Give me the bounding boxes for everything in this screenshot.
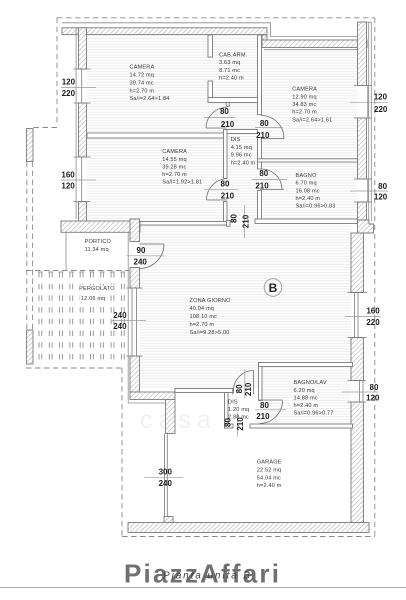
svg-text:h=2.70 m: h=2.70 m xyxy=(162,172,187,178)
roof overhang line right b xyxy=(370,22,372,221)
svg-text:B: B xyxy=(269,281,278,295)
svg-text:90: 90 xyxy=(137,246,146,255)
outer wall top band A xyxy=(62,28,267,35)
hallway left wall lower xyxy=(224,202,228,226)
svg-text:14.88 mc: 14.88 mc xyxy=(294,396,318,402)
west wall upper piece xyxy=(79,28,87,69)
svg-text:BAGNO: BAGNO xyxy=(296,173,317,179)
window 80/120 right bagno/lav xyxy=(348,380,367,382)
svg-text:11.34 mq: 11.34 mq xyxy=(85,247,109,253)
svg-text:80: 80 xyxy=(221,180,230,189)
svg-text:220: 220 xyxy=(366,318,380,327)
svg-text:16.08 mc: 16.08 mc xyxy=(296,188,320,194)
dim window right 120/220 xyxy=(350,93,388,114)
svg-text:CAMERA: CAMERA xyxy=(292,86,317,92)
svg-text:34.83 mc: 34.83 mc xyxy=(292,102,316,108)
pergolato roof pattern xyxy=(38,272,125,359)
outer wall top band B xyxy=(262,40,367,48)
portico west edge xyxy=(65,232,67,271)
svg-text:80: 80 xyxy=(229,214,238,223)
dim door DIS-bagno/lav 80/210 xyxy=(255,401,286,421)
svg-text:80: 80 xyxy=(370,383,379,392)
svg-text:14.72 mq: 14.72 mq xyxy=(130,73,155,79)
svg-text:160: 160 xyxy=(61,171,75,180)
door D4 arc xyxy=(262,169,283,190)
svg-text:80: 80 xyxy=(260,401,269,410)
label camera NW xyxy=(130,65,170,103)
svg-text:ZONA GIORNO: ZONA GIORNO xyxy=(190,298,232,304)
svg-text:80: 80 xyxy=(235,384,244,393)
dis2 left wall xyxy=(225,393,229,429)
dim opening hall-zona 80/210 rotated xyxy=(229,205,250,238)
svg-text:39.74 mc: 39.74 mc xyxy=(130,81,154,87)
right wall piece 4 xyxy=(351,233,364,293)
dim door D3 80/210 xyxy=(204,180,238,201)
hallway right wall piece 2 xyxy=(258,137,262,169)
svg-text:h=2.40 m: h=2.40 m xyxy=(294,403,319,409)
label bagno xyxy=(296,173,336,209)
door D2 arc xyxy=(261,116,284,139)
svg-text:DIS: DIS xyxy=(231,137,241,143)
dashed line left of garage xyxy=(121,368,123,537)
svg-text:54.04 mc: 54.04 mc xyxy=(257,475,281,481)
svg-text:80: 80 xyxy=(220,107,229,116)
west wall middle piece xyxy=(79,103,87,157)
svg-text:240: 240 xyxy=(159,479,173,488)
dim door D4 80/210 xyxy=(252,169,287,190)
door D1 arc xyxy=(206,108,227,129)
svg-text:39.28 mc: 39.28 mc xyxy=(162,164,186,170)
floor hatch upper-right rooms (CAMERA, BAGNO) xyxy=(262,50,358,219)
label dis hallway xyxy=(231,137,256,166)
floor hatch ZONA GIORNO lower-left xyxy=(140,363,259,389)
dim door zona-DIS 80/210 rotated xyxy=(235,369,253,399)
label camera NE xyxy=(292,86,332,123)
svg-text:CAMERA: CAMERA xyxy=(162,149,187,155)
svg-text:Sa/i=9.28>5.00: Sa/i=9.28>5.00 xyxy=(190,330,230,336)
window 160/220 right zona xyxy=(348,292,368,294)
svg-text:120: 120 xyxy=(61,182,75,191)
wall camera1/camera2 xyxy=(87,133,227,138)
svg-text:80: 80 xyxy=(259,169,268,178)
door DIS-bagno/lav leaf xyxy=(259,399,283,401)
dim door D1 80/210 xyxy=(204,107,235,129)
svg-text:casa: casa xyxy=(140,406,217,434)
svg-text:Sa/i=2.64>1.84: Sa/i=2.64>1.84 xyxy=(130,96,170,102)
pergola pillar 1 xyxy=(26,129,33,162)
west wall lower piece xyxy=(79,202,87,223)
door 90/240 arc xyxy=(140,244,165,269)
zona west wall piece 3 xyxy=(130,356,140,392)
garage top wall right piece xyxy=(250,424,353,428)
svg-text:Sa/i=0.96>0.83: Sa/i=0.96>0.83 xyxy=(296,204,336,210)
svg-text:h=2.40 m: h=2.40 m xyxy=(219,76,244,82)
hallway right wall piece 1 xyxy=(258,35,262,115)
door zona-DIS arc xyxy=(234,371,254,391)
svg-text:210: 210 xyxy=(244,382,253,396)
cab.arm left wall stub upper xyxy=(208,35,213,57)
svg-text:108.10 mc: 108.10 mc xyxy=(190,314,218,320)
floor hatch upper-left rooms (CAMERA x2, CAB.ARM, DIS) xyxy=(87,36,258,222)
svg-text:9.96 mc: 9.96 mc xyxy=(231,153,252,159)
svg-text:220: 220 xyxy=(62,89,76,98)
svg-text:210: 210 xyxy=(221,120,235,129)
dim door 90/240 portico xyxy=(127,246,165,267)
svg-text:3.63 mq: 3.63 mq xyxy=(219,60,240,66)
dim window right 80/120 xyxy=(350,182,388,202)
svg-text:80: 80 xyxy=(260,119,269,128)
jog wall horizontal xyxy=(130,392,175,400)
svg-text:12.90 mq: 12.90 mq xyxy=(292,94,317,100)
right wall top cap xyxy=(358,21,373,23)
garage top wall left piece xyxy=(225,424,234,428)
dim door D2 80/210 xyxy=(255,119,283,140)
bagno top wall xyxy=(258,159,358,162)
dim garage opening 300/240 xyxy=(144,467,183,488)
svg-text:6.20 mq: 6.20 mq xyxy=(294,388,315,394)
bagno/lav left wall xyxy=(259,363,263,401)
door 90/240 leaf (portico entrance) xyxy=(140,243,165,245)
svg-text:120: 120 xyxy=(374,93,388,102)
zona giorno bottom partition xyxy=(175,389,234,393)
svg-text:14.55 mq: 14.55 mq xyxy=(162,157,187,163)
dashed property line top xyxy=(57,17,375,19)
zona west wall piece 1 xyxy=(130,219,140,242)
hallway top wall xyxy=(226,130,258,134)
svg-text:12.06 mq: 12.06 mq xyxy=(81,296,106,302)
svg-text:PERGOLATO: PERGOLATO xyxy=(79,286,115,292)
garage west bottom step xyxy=(164,517,173,523)
svg-text:160: 160 xyxy=(366,307,380,316)
label zona giorno xyxy=(190,298,232,336)
svg-text:120: 120 xyxy=(366,394,380,403)
floor hatch ZONA GIORNO upper xyxy=(140,225,352,363)
label pergolato xyxy=(79,286,115,302)
svg-text:GARAGE: GARAGE xyxy=(257,460,282,466)
svg-text:210: 210 xyxy=(256,131,270,140)
dim window west 120/220 xyxy=(61,78,96,99)
dim window bagno/lav 80/120 xyxy=(342,383,380,403)
svg-text:Sa/l=1.92>1.81: Sa/l=1.92>1.81 xyxy=(162,180,202,186)
window 120/220 west xyxy=(74,68,91,70)
svg-text:Sa/i=0.96>0.77: Sa/i=0.96>0.77 xyxy=(294,410,334,416)
cab.arm left wall stub lower xyxy=(208,81,213,103)
right wall piece 1 xyxy=(358,22,367,86)
bagno bottom wall xyxy=(255,219,358,224)
label dis2 xyxy=(228,400,249,421)
dashed property line right xyxy=(374,18,376,537)
unit marker B xyxy=(264,279,282,297)
label bagno/lav xyxy=(294,380,334,416)
svg-text:120: 120 xyxy=(62,78,76,87)
dim window west 240/240 xyxy=(112,311,146,331)
jog wall vertical / garage west pier xyxy=(166,400,176,434)
label portico xyxy=(85,239,112,253)
window 240/240 west zona xyxy=(127,287,143,289)
roof overhang line right a xyxy=(368,22,370,221)
svg-text:6.70 mq: 6.70 mq xyxy=(296,181,317,187)
floor hatch BAGNO/LAV xyxy=(262,367,351,425)
svg-text:210: 210 xyxy=(241,214,250,228)
inner face line right section xyxy=(264,49,358,51)
door D1 leaf (hall/cab.arm) xyxy=(206,127,227,129)
dashed property line bottom xyxy=(122,536,375,538)
right wall piece 6 (garage) xyxy=(351,402,364,523)
dim door DIS-garage 80/210 rotated xyxy=(224,413,246,437)
right wall piece 3 xyxy=(358,202,367,224)
door zona-DIS leaf xyxy=(253,371,255,395)
svg-text:h=2.70 m: h=2.70 m xyxy=(130,89,155,95)
door D3 arc xyxy=(206,179,227,201)
svg-text:1.20 mq: 1.20 mq xyxy=(228,407,249,413)
svg-text:240: 240 xyxy=(113,311,127,320)
svg-text:2.88 mc: 2.88 mc xyxy=(228,415,249,421)
door D3 leaf (camera2) xyxy=(207,199,228,201)
svg-text:h=2.40 m: h=2.40 m xyxy=(231,160,256,166)
svg-text:DIS: DIS xyxy=(228,400,238,406)
svg-text:40.04 mq: 40.04 mq xyxy=(190,306,215,312)
dashed pergolato bottom xyxy=(26,367,122,369)
svg-text:h=2.70 m: h=2.70 m xyxy=(292,110,317,116)
cab.arm bottom wall xyxy=(208,98,262,103)
svg-text:BAGNO/LAV: BAGNO/LAV xyxy=(294,380,327,386)
svg-text:120: 120 xyxy=(374,193,388,202)
svg-text:h=2.40 m: h=2.40 m xyxy=(257,483,282,489)
right wall piece 5 xyxy=(351,338,364,381)
window 120/220 right xyxy=(354,85,372,87)
label garage xyxy=(257,460,282,490)
dashed pergola edge outer xyxy=(26,162,28,331)
dim window west 160/120 xyxy=(61,171,96,191)
dashed pergola edge inner xyxy=(32,162,34,331)
svg-text:8.71 mc: 8.71 mc xyxy=(219,68,240,74)
jamb tick hall-zona opening xyxy=(227,221,231,227)
svg-text:CAMERA: CAMERA xyxy=(130,65,155,71)
svg-text:22.52 mq: 22.52 mq xyxy=(257,468,282,474)
svg-text:220: 220 xyxy=(374,105,388,114)
svg-text:PORTICO: PORTICO xyxy=(85,239,112,245)
svg-text:Pianta unità B: Pianta unità B xyxy=(163,571,252,582)
bagno/lav top wall xyxy=(259,363,353,367)
window 160/120 west xyxy=(74,156,91,158)
footer rule xyxy=(0,587,406,589)
dashed pergolato top xyxy=(26,270,129,272)
svg-text:h=2.40 m: h=2.40 m xyxy=(296,196,321,202)
svg-text:240: 240 xyxy=(134,258,148,267)
garage bottom wall xyxy=(128,523,369,533)
zona west outer offset line xyxy=(128,232,165,403)
window 80/120 right bagno xyxy=(354,178,372,180)
wall camera2/zona giorno xyxy=(140,222,227,226)
right wall piece 2 xyxy=(358,118,367,179)
svg-text:240: 240 xyxy=(113,322,127,331)
svg-text:Sa/i=2.64>1.61: Sa/i=2.64>1.61 xyxy=(292,118,332,124)
hallway left wall upper xyxy=(224,130,228,179)
portico top wall band xyxy=(61,221,140,232)
hallway right wall piece 3 xyxy=(258,191,262,223)
dim window right 160/220 xyxy=(345,307,380,328)
right wall corner notch xyxy=(358,220,374,233)
door D2 leaf (camera NE) xyxy=(261,138,284,140)
door D4 leaf (bagno) xyxy=(260,189,284,191)
svg-text:210: 210 xyxy=(221,191,235,200)
label camera W xyxy=(162,149,202,185)
svg-text:CAB.ARM.: CAB.ARM. xyxy=(219,53,248,59)
zona west wall piece 2 xyxy=(130,268,140,289)
svg-text:210: 210 xyxy=(255,181,269,190)
door jamb tick D1 xyxy=(226,103,229,107)
door DIS-bagno/lav arc xyxy=(260,401,283,424)
roof overhang line top xyxy=(62,23,358,37)
svg-text:80: 80 xyxy=(378,182,387,191)
pergola pillar 2 xyxy=(26,330,33,364)
west wall outer face line xyxy=(75,28,77,219)
svg-text:300: 300 xyxy=(159,467,173,476)
jamb tick zona-DIS xyxy=(232,389,234,395)
garage opening 300/240 xyxy=(164,434,166,517)
dashed property line left xyxy=(56,18,58,126)
svg-text:4.15 mq: 4.15 mq xyxy=(231,145,252,151)
label cab.arm xyxy=(219,53,248,82)
dashed jog to pergola pillar xyxy=(33,127,57,129)
svg-text:210: 210 xyxy=(256,412,270,421)
outer wall step A-B xyxy=(262,35,267,40)
svg-text:h=2.70 m: h=2.70 m xyxy=(190,322,215,328)
